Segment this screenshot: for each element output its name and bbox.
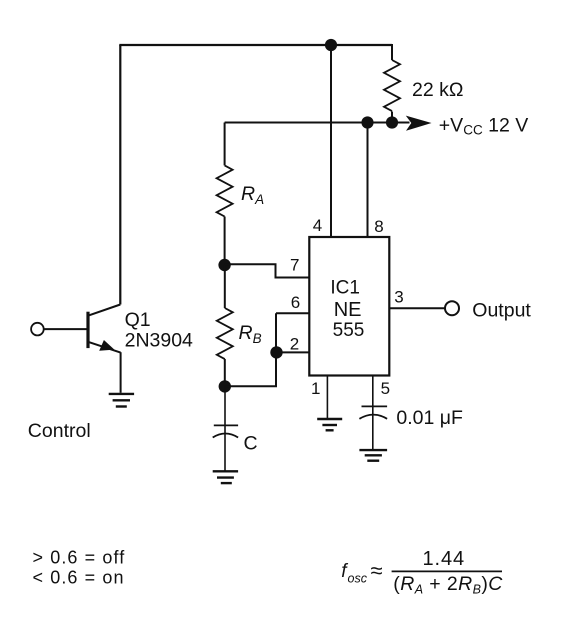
node junction top (pin4 tap)	[325, 39, 337, 51]
svg-text:Output: Output	[472, 300, 531, 322]
node output terminal circle	[445, 301, 459, 315]
wire 22k top lead	[391, 44, 393, 60]
pin 7 label	[290, 256, 299, 275]
svg-text:> 0.6 = off: > 0.6 = off	[33, 548, 126, 568]
svg-text:NE: NE	[334, 299, 362, 321]
wire RB bottom lead	[224, 359, 226, 386]
pin 4 label	[313, 216, 322, 235]
svg-text:RA: RA	[241, 183, 264, 207]
svg-text:5: 5	[381, 379, 390, 398]
label Control	[28, 420, 91, 442]
svg-text:8: 8	[374, 217, 383, 236]
wire RA bottom lead	[224, 217, 226, 266]
svg-text:0.01 μF: 0.01 μF	[396, 407, 463, 429]
label Output	[472, 300, 531, 322]
svg-text:6: 6	[291, 293, 300, 312]
svg-text:2N3904: 2N3904	[125, 330, 193, 352]
svg-text:IC1: IC1	[330, 278, 360, 299]
node junction RB-C (pin2/6 tap)	[219, 380, 231, 392]
node junction RA-RB (pin7 node)	[218, 259, 230, 271]
node input terminal circle (Control)	[31, 323, 44, 336]
svg-text:< 0.6 = on: < 0.6 = on	[33, 568, 125, 588]
wire Vcc rail horizontal	[225, 122, 410, 124]
transistor Q1	[88, 305, 121, 353]
label Q1	[125, 309, 151, 331]
pin 3 label	[394, 288, 403, 307]
label formula fosc	[341, 548, 503, 597]
svg-text:Q1: Q1	[125, 309, 151, 331]
resistor RB	[217, 308, 233, 359]
svg-text:7: 7	[290, 256, 299, 275]
label 22 kOhm	[412, 79, 463, 101]
pin 6 label	[291, 293, 300, 312]
op-amp IC1 NE555 box	[309, 237, 389, 376]
node junction pin2/6	[270, 346, 282, 358]
wire pin 5 lead (through capacitor to ground)	[372, 376, 374, 450]
wire 22k bottom lead	[391, 112, 393, 123]
pin 1 label	[311, 379, 320, 398]
node junction 22k on Vcc rail	[386, 116, 398, 128]
wire pin 4 vertical	[330, 45, 332, 237]
label threshold on	[33, 568, 125, 588]
ground (pin 1)	[317, 419, 342, 430]
capacitor C	[213, 425, 238, 437]
wire capacitor C lead (junction to ground)	[224, 386, 226, 471]
svg-text:555: 555	[333, 320, 365, 341]
ground (below C)	[213, 471, 238, 483]
svg-text:3: 3	[394, 288, 403, 307]
svg-text:Control: Control	[28, 420, 91, 442]
svg-text:4: 4	[313, 216, 322, 235]
label threshold off	[33, 548, 126, 568]
wire RB junction to pins 2/6	[225, 313, 276, 386]
wire RB top lead	[224, 265, 226, 308]
svg-text:≈: ≈	[371, 558, 383, 583]
capacitor C2 0.01uF	[359, 406, 387, 418]
resistor RA	[217, 165, 233, 216]
svg-text:22 kΩ: 22 kΩ	[412, 79, 463, 101]
wire top horizontal rail	[119, 44, 392, 46]
pin 2 label	[290, 335, 299, 354]
svg-text:1: 1	[311, 379, 320, 398]
label 0.01 uF	[396, 407, 463, 429]
svg-text:2: 2	[290, 335, 299, 354]
wire RA top lead	[224, 123, 226, 166]
wire pin 3 output	[389, 307, 445, 309]
pin 5 label	[381, 379, 390, 398]
label RB	[239, 322, 262, 346]
svg-text:osc: osc	[348, 572, 368, 586]
svg-text:RB: RB	[239, 322, 262, 346]
Vcc arrow	[406, 116, 432, 131]
node junction pin8 on Vcc rail	[361, 116, 373, 128]
wire base	[44, 328, 88, 330]
pin 8 label	[374, 217, 383, 236]
wire emitter to ground	[120, 352, 122, 393]
svg-text:1.44: 1.44	[423, 548, 466, 570]
svg-text:(RA + 2RB)C: (RA + 2RB)C	[393, 573, 503, 597]
wire left vertical (Q1 collector to top rail)	[119, 45, 121, 305]
wire pin 2	[276, 351, 309, 353]
ground (below C2)	[359, 450, 387, 461]
label IC1 NE 555	[330, 278, 364, 342]
label C	[244, 433, 258, 455]
svg-text:C: C	[244, 433, 258, 455]
ground (Q1 emitter)	[109, 394, 134, 407]
wire pin 6	[276, 312, 309, 314]
label RA	[241, 183, 264, 207]
svg-text:+VCC 12 V: +VCC 12 V	[439, 115, 528, 138]
wire pin 8 vertical	[367, 123, 369, 238]
wire pin 1 ground lead	[326, 376, 328, 419]
resistor R 22k	[384, 60, 400, 111]
label +Vcc 12 V	[439, 115, 528, 138]
wire pin 7	[225, 264, 310, 277]
label 2N3904	[125, 330, 193, 352]
